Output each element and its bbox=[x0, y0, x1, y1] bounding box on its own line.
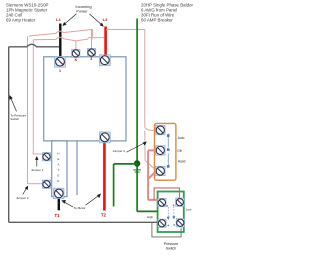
wire green branch to motor vertical bbox=[113, 164, 115, 207]
node green junction dot bbox=[134, 160, 140, 166]
svg-text:T1: T1 bbox=[55, 213, 61, 218]
wire L1 black incoming bbox=[59, 24, 61, 59]
wire pink corner to red wire bbox=[93, 29, 105, 37]
wire salmon diagonal from hand terminal bbox=[148, 172, 156, 180]
terminal 1 bbox=[55, 56, 66, 67]
wire green bottom to pressure switch bbox=[137, 210, 158, 212]
switch connector blue lower bbox=[167, 149, 169, 168]
note motor specs text block bbox=[141, 3, 193, 23]
svg-text:L1: L1 bbox=[56, 17, 61, 22]
arrow jumper 3 bbox=[127, 142, 147, 152]
terminal starter bottom right bbox=[99, 132, 110, 143]
svg-text:60 AMP Breaker: 60 AMP Breaker bbox=[141, 18, 173, 23]
switch connector blue upper bbox=[167, 134, 169, 148]
svg-text:3: 3 bbox=[90, 57, 92, 61]
terminal HOA hand bbox=[156, 166, 166, 176]
wire gray to pressure switch horizontal top with hop bbox=[9, 44, 59, 47]
terminal T1 heater output bbox=[53, 188, 64, 199]
svg-text:Jumper 3: Jumper 3 bbox=[112, 149, 125, 153]
wire green branch to motor horizontal bbox=[114, 163, 138, 165]
terminal pressure switch BR bbox=[176, 219, 184, 227]
svg-text:Pressure: Pressure bbox=[164, 242, 178, 246]
svg-text:Jumper 1: Jumper 1 bbox=[31, 168, 44, 172]
heater box bbox=[52, 141, 67, 197]
svg-text:K: K bbox=[75, 58, 78, 62]
wire red thin hand to pressure switch TR bbox=[154, 188, 179, 201]
svg-text:H: H bbox=[57, 152, 59, 156]
wire pink P2 vertical left bbox=[32, 40, 34, 154]
terminal HOA off bbox=[156, 146, 166, 156]
svg-text:To Motor: To Motor bbox=[74, 206, 86, 210]
arrow jumper 1 bbox=[36, 157, 38, 167]
terminal 3 coil bbox=[87, 48, 95, 56]
wire pink P1 to heater bottom terminal bbox=[28, 183, 44, 185]
svg-text:Power: Power bbox=[76, 9, 88, 14]
terminal pressure switch BL bbox=[158, 219, 166, 227]
heater label vertical bbox=[57, 152, 60, 184]
arrow to pressure switch bbox=[10, 96, 17, 112]
svg-text:69 Amp Heater: 69 Amp Heater bbox=[6, 18, 36, 23]
svg-text:T2: T2 bbox=[101, 213, 107, 218]
op starter box bbox=[44, 57, 126, 141]
wire black T1 from heater to motor bbox=[58, 198, 60, 211]
terminal heater bottom bbox=[42, 180, 50, 188]
arrow incoming power to L2 bbox=[90, 14, 104, 26]
switch contact dashed left bbox=[167, 207, 169, 219]
svg-text:Switch: Switch bbox=[166, 247, 177, 251]
svg-text:L2: L2 bbox=[103, 17, 108, 22]
arrow jumper 2 bbox=[23, 186, 28, 194]
svg-text:E: E bbox=[57, 174, 59, 178]
op pressure switch box bbox=[158, 192, 184, 233]
wire pink P2 to heater top terminal bbox=[33, 153, 43, 155]
wire gray bottom horizontal to pressure switch bbox=[9, 221, 162, 223]
terminal L2 top right bbox=[99, 55, 110, 66]
svg-text:Switch: Switch bbox=[10, 117, 19, 121]
svg-text:Jumper 2: Jumper 2 bbox=[16, 196, 29, 200]
wire blue stub right of heater bbox=[76, 142, 78, 196]
svg-text:T: T bbox=[57, 168, 59, 172]
terminal pressure switch TR bbox=[176, 198, 184, 206]
node Pressure Switch label bbox=[164, 242, 178, 251]
node Incoming Power label bbox=[75, 4, 91, 14]
switch contact dashed right bbox=[173, 207, 175, 219]
svg-text:Auto: Auto bbox=[178, 136, 185, 140]
wire pink upper jumper sloped (terminal 3 circuit) bbox=[29, 29, 93, 36]
wire L2 red incoming bbox=[104, 27, 107, 57]
wire pink P1 vertical left bbox=[27, 36, 29, 184]
note To Pressure Switch label bbox=[10, 113, 26, 121]
wire green ground main vertical bbox=[136, 19, 138, 212]
svg-text:1: 1 bbox=[59, 69, 61, 73]
wire pink L2 to HOA feed horizontal bbox=[106, 29, 145, 31]
wire salmon vertical down bbox=[147, 150, 149, 200]
svg-text:Hand: Hand bbox=[178, 160, 186, 164]
wire red T2 from starter to motor bbox=[103, 142, 106, 211]
arrow incoming power to L1 bbox=[63, 14, 77, 26]
wire gray loop to low terminal bbox=[152, 222, 181, 237]
arrow to motor right bbox=[86, 194, 101, 205]
wire pink HOA feed vertical bbox=[144, 30, 146, 127]
wire pink lower jumper sloped (terminal K circuit) bbox=[33, 37, 93, 41]
terminal pressure switch TL bbox=[158, 198, 166, 206]
wire pink vertical continue to Hand diagonal bbox=[145, 131, 156, 170]
note starter specs text block bbox=[6, 3, 49, 23]
terminal heater top bbox=[42, 153, 50, 161]
wire pink drop to terminal 3 bbox=[91, 30, 93, 49]
wire salmon into pressure switch TL bbox=[148, 200, 162, 202]
node blue contact dots bbox=[166, 204, 175, 226]
op HOA selector switch box bbox=[155, 123, 176, 180]
terminal K coil bbox=[72, 49, 80, 57]
wire pink stub to terminal K bbox=[75, 41, 77, 49]
svg-text:E: E bbox=[57, 157, 59, 161]
svg-text:Off: Off bbox=[177, 149, 181, 153]
svg-text:Low: Low bbox=[186, 208, 192, 212]
wire pink curve into Auto terminal bbox=[145, 126, 156, 130]
terminal HOA auto bbox=[156, 125, 166, 135]
ground symbol bbox=[133, 170, 141, 172]
arrow to motor left bbox=[62, 200, 73, 207]
wire gray vertical left bbox=[8, 47, 10, 223]
svg-text:High: High bbox=[147, 215, 154, 219]
wire salmon off terminal horizontal bbox=[148, 149, 156, 151]
